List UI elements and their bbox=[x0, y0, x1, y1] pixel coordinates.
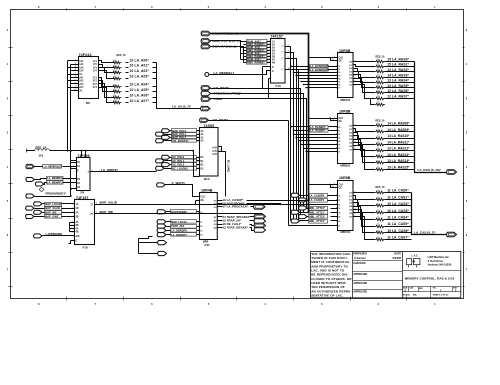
wires into MRB01 inputs bbox=[293, 133, 338, 152]
IC F10 74F157 label bbox=[76, 196, 88, 200]
svg-text:L A C: L A C bbox=[412, 254, 418, 257]
IC P11 16R4B body bbox=[196, 193, 218, 247]
wire LA_RAS collector bus bbox=[415, 62, 447, 173]
svg-text:2B: 2B bbox=[76, 217, 79, 219]
svg-text:MAP_LOCAL: MAP_LOCAL bbox=[171, 220, 188, 224]
svg-text:OE: OE bbox=[339, 61, 343, 63]
IC B13 74S85 body bbox=[197, 128, 218, 181]
resistor RP1-1 and net label LA_A00* bbox=[112, 58, 157, 64]
svg-text:6 Tech Drive: 6 Tech Drive bbox=[428, 259, 444, 263]
off-page connector PROGMODE1 bbox=[26, 188, 77, 198]
svg-text:10 LA_A06*: 10 LA_A06* bbox=[130, 94, 150, 98]
svg-text:11 LA_CAS5*: 11 LA_CAS5* bbox=[387, 222, 409, 226]
net label RAM_A001 bbox=[247, 40, 271, 44]
IC F13 74F157 label bbox=[271, 34, 283, 38]
wire MRC01 CLK/OE bbox=[308, 183, 338, 188]
wires MRA01 outputs fan bbox=[353, 62, 375, 99]
IC F13 74F157 body bbox=[268, 39, 285, 88]
off-page connector C_WAIT1 bbox=[157, 181, 186, 187]
svg-text:LA_MEMRF0: LA_MEMRF0 bbox=[47, 177, 63, 180]
svg-text:SCALE: SCALE bbox=[403, 293, 411, 296]
off-page connector BML_ATT21* bbox=[299, 215, 328, 219]
resistor RP2-4 net LA_RAS3* bbox=[372, 73, 415, 79]
resistor pack RP4 header RES_16 bbox=[376, 186, 386, 189]
net label LA_BUSRQ0P0 bbox=[290, 64, 337, 68]
net P11 out LA_CAS0P bbox=[218, 198, 309, 202]
IC U6 74F244 body bbox=[79, 57, 99, 105]
svg-text:MAP_LVALID: MAP_LVALID bbox=[45, 202, 61, 206]
resistor RP1-7 and net label LA_A06* bbox=[112, 94, 157, 99]
svg-text:1A1: 1A1 bbox=[79, 60, 84, 63]
svg-text:OE: OE bbox=[201, 200, 205, 202]
svg-text:RES_16: RES_16 bbox=[376, 186, 386, 189]
off-page connector BC_LOADB1 bbox=[156, 166, 200, 170]
wire bus into 74F244 inputs bbox=[67, 61, 74, 152]
svg-text:LA_RAS (0..15)*: LA_RAS (0..15)* bbox=[418, 168, 442, 172]
off-page connector GC_POL2 bbox=[162, 163, 200, 167]
svg-text:F9: F9 bbox=[81, 190, 85, 194]
svg-text:APPROVED: APPROVED bbox=[353, 290, 367, 293]
off-page connector LA_DBRQP0 bbox=[157, 228, 199, 232]
svg-text:2A3: 2A3 bbox=[79, 83, 84, 86]
svg-text:1A4: 1A4 bbox=[79, 70, 84, 73]
net label DMA_RAM021 bbox=[247, 55, 271, 59]
IC U6 74F244 label bbox=[79, 53, 92, 57]
resistor RP2-5 net LA_RAS4* bbox=[372, 79, 415, 85]
svg-text:BML_ATT31*: BML_ATT31* bbox=[309, 219, 325, 223]
svg-text:1A2: 1A2 bbox=[79, 63, 84, 66]
off-page connector spare1 bbox=[158, 241, 167, 245]
svg-text:LA_WRITE*: LA_WRITE* bbox=[101, 168, 119, 172]
svg-text:CHECKED: CHECKED bbox=[353, 262, 366, 265]
svg-text:LA_CAS (0..7)*: LA_CAS (0..7)* bbox=[414, 230, 436, 234]
svg-text:3B: 3B bbox=[272, 57, 275, 59]
svg-text:13 TRAP_ISFAKE*: 13 TRAP_ISFAKE* bbox=[223, 225, 249, 229]
svg-text:B13: B13 bbox=[204, 177, 210, 181]
svg-text:MAP_VALID: MAP_VALID bbox=[100, 201, 118, 205]
resistor RP1-4 and net label LA_A03* bbox=[112, 75, 157, 80]
svg-text:CLK: CLK bbox=[339, 58, 344, 60]
svg-text:1A: 1A bbox=[272, 41, 275, 44]
svg-text:J10: J10 bbox=[39, 154, 44, 158]
off-page connector MAP_LOCAL bbox=[157, 220, 199, 224]
wires into MRC01 inputs bbox=[289, 207, 338, 225]
resistor RP1-6 and net label LA_A05* bbox=[112, 88, 157, 93]
wire CO_WAIT1 net bbox=[209, 120, 289, 122]
resistor RP4-8 net LA_CAS7* bbox=[372, 236, 412, 242]
resistor pack RP1 header RES_16 bbox=[117, 54, 127, 57]
svg-text:2A1: 2A1 bbox=[79, 77, 84, 80]
off-page connector TRAP_FE1 bbox=[157, 224, 199, 228]
svg-text:D6: D6 bbox=[86, 101, 90, 105]
svg-text:F10: F10 bbox=[83, 245, 89, 249]
net label LA_RASBP0 bbox=[290, 125, 337, 129]
polarity diamond bbox=[39, 187, 44, 191]
resistor RP2-3 net LA_RAS2* bbox=[372, 68, 415, 74]
svg-text:1A: 1A bbox=[76, 203, 79, 206]
svg-text:MRA01: MRA01 bbox=[341, 98, 351, 102]
net label LA_CAS (0..7)* bbox=[414, 230, 436, 234]
svg-text:TRAP_FE1: TRAP_FE1 bbox=[171, 224, 185, 228]
svg-text:15 LA_RAS0*: 15 LA_RAS0* bbox=[387, 57, 409, 61]
svg-text:1Y: 1Y bbox=[90, 204, 93, 206]
IC MRB01 16R8B bbox=[336, 110, 357, 168]
net P11 out BOOTROM0 bbox=[218, 201, 281, 205]
svg-text:SIZE: SIZE bbox=[403, 287, 408, 289]
svg-text:16R8B: 16R8B bbox=[339, 176, 351, 180]
off-page connector MAP_WE bbox=[34, 210, 75, 214]
resistor RP3-1 net LA_RAS8* bbox=[372, 122, 415, 128]
svg-text:2A2: 2A2 bbox=[79, 80, 84, 83]
svg-text:11 LA_CAS1*: 11 LA_CAS1* bbox=[387, 195, 409, 199]
svg-text:LA_DBRQP0: LA_DBRQP0 bbox=[171, 229, 187, 233]
off-page connector LA_CAS0P1 src bbox=[299, 198, 309, 202]
off-page connector RAM_A bbox=[201, 39, 239, 43]
wires 74F244 outputs to resistor pack RP1 bbox=[99, 61, 115, 103]
wire CO_WAIT net bbox=[211, 89, 301, 217]
svg-text:BML_ATT21*: BML_ATT21* bbox=[309, 215, 325, 219]
wire B-side bus 74S85 bbox=[192, 150, 199, 177]
svg-text:MEMORY CONTROL: RAS & CAS: MEMORY CONTROL: RAS & CAS bbox=[405, 277, 455, 281]
svg-text:G: G bbox=[272, 71, 274, 73]
svg-text:10 LA_A07*: 10 LA_A07* bbox=[130, 99, 150, 103]
svg-text:P11: P11 bbox=[205, 243, 211, 247]
svg-text:GC_POL2: GC_POL2 bbox=[172, 163, 185, 167]
off-page connector L15PMODE bbox=[34, 232, 75, 238]
svg-text:2Y: 2Y bbox=[90, 214, 93, 216]
off-page connector LA_MEMRF1 bbox=[35, 181, 76, 187]
svg-text:13 LA_RAS15*: 13 LA_RAS15* bbox=[387, 165, 410, 169]
svg-text:1B: 1B bbox=[272, 45, 275, 47]
off-page connector LA_CAS bus bbox=[447, 232, 457, 237]
svg-text:17 LA_PROCACK*: 17 LA_PROCACK* bbox=[223, 205, 249, 209]
svg-text:4A: 4A bbox=[76, 227, 79, 230]
resistor RP4-3 net LA_CAS2* bbox=[372, 202, 412, 208]
net label LA_CAS0P0 bbox=[309, 193, 338, 197]
svg-text:1B: 1B bbox=[76, 208, 79, 210]
svg-text:CLK: CLK bbox=[339, 118, 344, 120]
resistor RP3-6 net LA_RAS13* bbox=[372, 153, 415, 159]
off-page connector spare2 bbox=[158, 251, 167, 255]
resistor RP2-2 net LA_RAS1* bbox=[372, 63, 415, 69]
svg-text:14 LA_RAS11*: 14 LA_RAS11* bbox=[387, 140, 410, 144]
net P11 out 13 TRAP_ISFAKE* bbox=[218, 225, 266, 232]
svg-text:LISP Machine Inc.: LISP Machine Inc. bbox=[428, 255, 450, 259]
wire F9 top feeds bbox=[81, 150, 87, 158]
resistor RP4-5 net LA_CAS4* bbox=[372, 216, 412, 222]
connector circle LA_MEMSEL bbox=[205, 71, 271, 77]
off-page connector MAP_POL2 bbox=[162, 135, 200, 139]
svg-text:11 LA_CAS4*: 11 LA_CAS4* bbox=[387, 216, 409, 220]
svg-text:NO.: NO. bbox=[433, 287, 437, 289]
off-page connector VIA_BOOST1 bbox=[156, 139, 200, 143]
resistor RP4-4 net LA_CAS3* bbox=[372, 209, 412, 215]
net label DMA_RAM011 bbox=[247, 49, 271, 53]
svg-text:LA_CAS0P1: LA_CAS0P1 bbox=[309, 198, 325, 202]
svg-text:CAT.: CAT. bbox=[409, 286, 414, 289]
border frame bbox=[11, 10, 464, 299]
svg-text:DATE: DATE bbox=[394, 253, 401, 256]
off-page connector MAP_LVALID bbox=[34, 202, 75, 206]
svg-text:MAP_WE: MAP_WE bbox=[45, 210, 57, 214]
resistor RP2-1 net LA_RAS0* bbox=[372, 57, 415, 63]
svg-text:RES_16: RES_16 bbox=[117, 54, 127, 57]
svg-text:A=B: A=B bbox=[212, 150, 217, 153]
svg-text:VIA_BOOST1: VIA_BOOST1 bbox=[172, 139, 189, 143]
svg-text:10 LA_A00*: 10 LA_A00* bbox=[130, 58, 150, 62]
svg-text:4A: 4A bbox=[272, 59, 275, 62]
off-page connector BML_ATT31* bbox=[291, 219, 327, 223]
resistor RP1-5 and net label LA_A04* bbox=[112, 83, 157, 88]
svg-text:N/A: N/A bbox=[413, 293, 417, 296]
zone letters top/bottom bbox=[38, 5, 436, 306]
svg-text:74F157: 74F157 bbox=[271, 34, 283, 38]
svg-text:PROGMODE1*: PROGMODE1* bbox=[46, 192, 68, 196]
svg-text:K.Gartner: K.Gartner bbox=[354, 257, 366, 260]
off-page connector BOOTROM0* bbox=[157, 210, 199, 214]
svg-text:2A: 2A bbox=[76, 211, 79, 214]
svg-text:LA_A0 (0..7)*: LA_A0 (0..7)* bbox=[172, 105, 192, 109]
svg-text:3A: 3A bbox=[76, 221, 79, 224]
svg-text:10 LA_A05*: 10 LA_A05* bbox=[130, 88, 150, 92]
wires F13 outputs to vertical bus bbox=[281, 45, 298, 221]
svg-text:G: G bbox=[76, 241, 78, 243]
svg-text:12 LA_RAS7*: 12 LA_RAS7* bbox=[387, 95, 409, 99]
svg-text:BC_LOAD1: BC_LOAD1 bbox=[227, 160, 230, 173]
svg-text:4B: 4B bbox=[272, 62, 275, 65]
resistor RP3-2 net LA_RAS9* bbox=[372, 128, 415, 134]
svg-text:OE: OE bbox=[339, 188, 343, 190]
off-page connector CO_WAIT bbox=[201, 86, 229, 90]
svg-text:1Y3: 1Y3 bbox=[93, 67, 98, 69]
svg-text:2Y4: 2Y4 bbox=[93, 86, 98, 89]
svg-text:MRB01: MRB01 bbox=[341, 164, 351, 168]
svg-text:F13: F13 bbox=[276, 84, 282, 88]
svg-text:1Y2: 1Y2 bbox=[93, 64, 98, 66]
IC F10 74F157 body bbox=[71, 200, 94, 250]
wire 74S85 output BC_LOAD1 bbox=[219, 147, 230, 197]
svg-text:OE: OE bbox=[339, 121, 343, 123]
svg-text:16R4B: 16R4B bbox=[201, 188, 213, 192]
wire F13 select pins bbox=[263, 67, 271, 99]
net label DMA_RAM031 bbox=[247, 61, 271, 65]
svg-text:REF.: REF. bbox=[419, 288, 424, 290]
resistor RP3-8 net LA_RAS15* bbox=[372, 165, 415, 171]
svg-text:LA_MEMRF1: LA_MEMRF1 bbox=[47, 182, 63, 185]
IC F9 74F139 label bbox=[78, 154, 90, 158]
wires MRC01 outputs fan bbox=[353, 193, 375, 240]
resistor RP4-6 net LA_CAS5* bbox=[372, 222, 412, 228]
net LA_WRITE out bbox=[91, 168, 157, 172]
svg-text:DMA_RAM031: DMA_RAM031 bbox=[247, 61, 265, 65]
svg-text:10 LA_A02*: 10 LA_A02* bbox=[130, 69, 150, 73]
svg-text:1Y1: 1Y1 bbox=[93, 61, 98, 63]
svg-text:MAP_VALID: MAP_VALID bbox=[45, 206, 60, 210]
resistor RP2-7 net LA_RAS6* bbox=[372, 89, 415, 95]
svg-text:SHEET 2 OF 21: SHEET 2 OF 21 bbox=[433, 294, 450, 296]
svg-text:2A: 2A bbox=[272, 47, 275, 50]
zone numbers sides bbox=[7, 28, 468, 287]
resistor RP4-7 net LA_CAS6* bbox=[372, 229, 412, 235]
svg-text:A<B: A<B bbox=[212, 147, 217, 150]
svg-text:APPROVED: APPROVED bbox=[353, 282, 367, 285]
net label DMA_RAM001 bbox=[247, 43, 271, 47]
svg-text:BC_LOADB1: BC_LOADB1 bbox=[172, 166, 188, 170]
wire MRB01 CLK/OE bbox=[308, 117, 338, 122]
svg-text:REV: REV bbox=[453, 287, 458, 289]
IC P11 16R4B label bbox=[201, 188, 213, 192]
net P11 out 14 TRAP_SPFAKE1* bbox=[218, 214, 266, 219]
wire F10 lower input jogs bbox=[70, 223, 75, 232]
svg-text:LA_DBRQP1: LA_DBRQP1 bbox=[171, 233, 187, 237]
IC MRA01 16R8B bbox=[336, 49, 357, 102]
svg-text:CLK: CLK bbox=[201, 197, 206, 199]
inductor J10 REF_LK bbox=[27, 146, 194, 158]
net MAP_WE out bbox=[95, 210, 263, 214]
off-page connector LA_DBRQP1 bbox=[157, 233, 199, 237]
net P11 out 15 TRAP_2G* bbox=[218, 218, 266, 223]
svg-text:CLK: CLK bbox=[339, 185, 344, 187]
title block signature column bbox=[353, 253, 403, 294]
resistor RP1-8 and net label LA_A07* bbox=[112, 99, 157, 104]
resistor RP4-1 net LA_CAS0* bbox=[372, 189, 412, 195]
svg-text:2Y2: 2Y2 bbox=[93, 81, 98, 83]
wire LA_A0 bus collector bbox=[157, 63, 201, 109]
wire DMA_RAM bus bbox=[211, 47, 244, 63]
off-page connector MAP_POL1 bbox=[156, 132, 200, 136]
svg-text:2B: 2B bbox=[272, 51, 275, 53]
svg-text:MAP_OWE: MAP_OWE bbox=[45, 215, 59, 219]
resistor RP2-8 net LA_RAS7* bbox=[372, 95, 415, 101]
off-page connector BML_ATT01* bbox=[299, 206, 328, 210]
net label LA_RAS (0..15)* bbox=[418, 168, 442, 172]
off-page connector LA_CAS0P0 src bbox=[291, 193, 308, 197]
net label RAM_A011 bbox=[247, 46, 271, 50]
svg-text:2Y1: 2Y1 bbox=[93, 78, 98, 80]
off-page connector MAP_OWE bbox=[26, 215, 75, 219]
net label RAM_A021 bbox=[247, 52, 271, 56]
net label LA_BUSRQ0P1 bbox=[293, 68, 338, 72]
wire PROGRAM_FREQ net bbox=[211, 94, 304, 213]
svg-text:A/B: A/B bbox=[76, 235, 80, 238]
off-page connector LA_MEMRQ1G bbox=[26, 164, 72, 168]
wires into MRA01 inputs bbox=[293, 72, 338, 89]
svg-text:10 LA_A04*: 10 LA_A04* bbox=[130, 83, 150, 87]
net MAP_VALID out bbox=[95, 201, 338, 205]
wire P11 lower hook bbox=[139, 237, 158, 254]
resistor RP1-2 and net label LA_A01* bbox=[112, 64, 157, 69]
vertical bus wires center bbox=[288, 121, 290, 226]
resistor RP1-3 and net label LA_A02* bbox=[112, 69, 157, 74]
title block company/logo column bbox=[403, 254, 461, 297]
off-page connector USED bbox=[201, 97, 223, 101]
wire USED net bbox=[211, 99, 307, 209]
wire RAM_A bus bbox=[211, 41, 241, 60]
svg-text:LA_CAS0P0: LA_CAS0P0 bbox=[309, 193, 325, 197]
svg-text:LA_BUSRQ0P1: LA_BUSRQ0P1 bbox=[310, 68, 329, 72]
svg-text:Andover, MA 01810: Andover, MA 01810 bbox=[428, 262, 452, 266]
resistor RP3-3 net LA_RAS10* bbox=[372, 134, 415, 140]
svg-text:MAP_WE: MAP_WE bbox=[100, 210, 114, 214]
svg-text:3A: 3A bbox=[272, 53, 275, 56]
svg-text:8/30/88: 8/30/88 bbox=[393, 257, 402, 260]
off-page connector LA_A0 bus bbox=[201, 106, 210, 110]
wires MRB01 outputs fan bbox=[353, 126, 375, 170]
net label LA_CAS0P1 bbox=[309, 198, 338, 202]
resistor RP2-6 net LA_RAS5* bbox=[372, 84, 415, 90]
svg-text:4B: 4B bbox=[76, 231, 79, 234]
resistor RP2 spare element bbox=[371, 99, 386, 106]
svg-text:SENTATIVE OF LAC.: SENTATIVE OF LAC. bbox=[311, 294, 343, 298]
svg-text:1A3: 1A3 bbox=[79, 66, 84, 69]
IC B13 74S85 label bbox=[204, 124, 215, 128]
net label RAM_A031 bbox=[247, 58, 271, 62]
svg-text:BML_ATT01*: BML_ATT01* bbox=[309, 206, 325, 210]
resistor RP3-7 net LA_RAS14* bbox=[372, 159, 415, 165]
svg-text:BML_ATT11*: BML_ATT11* bbox=[309, 210, 325, 214]
title block legal text bbox=[311, 252, 352, 298]
svg-text:10 LA_A03*: 10 LA_A03* bbox=[130, 75, 150, 79]
off-page connector LA_BUSRQ bbox=[201, 31, 238, 35]
net P11 out 16 RE_FAIL1* bbox=[218, 222, 266, 228]
wire F9 left feed bus bbox=[70, 150, 76, 197]
wire C_WAIT1 to P11 clock bbox=[165, 185, 200, 197]
off-page connector LA_MEMRF0 bbox=[26, 177, 77, 182]
resistor RP4-2 net LA_CAS1* bbox=[372, 195, 412, 201]
off-page connector PROGRAM_FREQ bbox=[201, 91, 242, 95]
net label LA_A0 (0..7)* bbox=[172, 105, 192, 109]
resistor RP3-5 net LA_RAS12* bbox=[372, 147, 415, 153]
svg-text:REF_LK: REF_LK bbox=[36, 146, 48, 150]
net P11 out LA_PROCACK bbox=[218, 205, 266, 210]
off-page connector LA_RAS bus bbox=[447, 170, 457, 175]
svg-text:APPROVED: APPROVED bbox=[353, 273, 367, 276]
resistor pack RP3 header RES_16 bbox=[376, 119, 386, 122]
off-page connector MAP_VALID bbox=[26, 206, 75, 210]
svg-text:1Y4: 1Y4 bbox=[93, 70, 98, 73]
wire fan into U-F13 inputs bbox=[241, 42, 247, 63]
svg-text:2Y3: 2Y3 bbox=[93, 84, 98, 86]
off-page connector MAP_POL0 bbox=[162, 129, 200, 133]
title block frame bbox=[311, 252, 461, 298]
net label LA_RASBP1 bbox=[293, 129, 338, 133]
resistor pack RP2 header RES_16 bbox=[376, 56, 386, 59]
svg-text:MRC01: MRC01 bbox=[341, 230, 351, 234]
svg-text:RES_16: RES_16 bbox=[376, 119, 386, 122]
resistor RP3-4 net LA_RAS11* bbox=[372, 140, 415, 146]
IC MRC01 16R8B bbox=[336, 176, 357, 234]
svg-text:A>B: A>B bbox=[212, 153, 217, 156]
svg-text:LA_RASBP1: LA_RASBP1 bbox=[310, 129, 326, 133]
svg-text:14 LA_RAS10*: 14 LA_RAS10* bbox=[387, 134, 410, 138]
svg-text:10 LA_A01*: 10 LA_A01* bbox=[130, 64, 150, 68]
svg-text:LA_MEMRQ1G*: LA_MEMRQ1G* bbox=[44, 166, 63, 169]
svg-text:3B: 3B bbox=[76, 225, 79, 227]
svg-text:16R8B: 16R8B bbox=[339, 110, 351, 114]
wire LA_CAS collector bus bbox=[412, 193, 447, 235]
74F244 left pin stubs bbox=[74, 60, 79, 92]
svg-text:PREPARED: PREPARED bbox=[353, 253, 367, 256]
off-page connector BML_ATT11* bbox=[291, 210, 327, 214]
svg-text:1G: 1G bbox=[79, 74, 82, 76]
wire F10 enable bbox=[69, 241, 75, 244]
off-page connector GC_POL1 bbox=[156, 159, 200, 164]
off-page connector DMA_RAM bbox=[201, 44, 236, 48]
off-page connector GC_POL0 bbox=[162, 155, 200, 159]
svg-text:2G: 2G bbox=[79, 91, 82, 93]
wire LA_BUSRQ heavy net bbox=[211, 34, 309, 213]
IC F9 74F139 body bbox=[77, 158, 91, 195]
